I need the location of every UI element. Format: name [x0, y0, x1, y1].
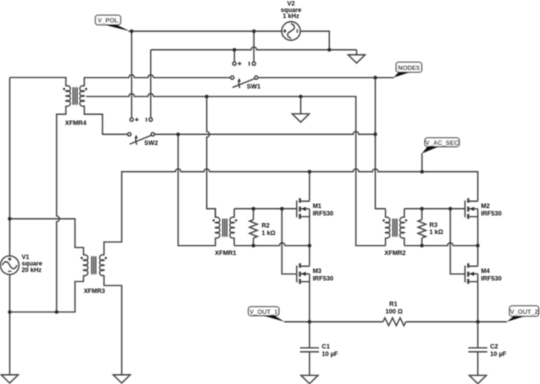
wire V1 rail lower x=9.7	[9, 275, 11, 375]
svg-text:IRF530: IRF530	[481, 276, 502, 283]
junction V1 rail to XFMR3	[8, 217, 12, 221]
wire C2 top stub	[477, 322, 479, 348]
svg-text:C1: C1	[322, 344, 331, 351]
junction XFMR4 return	[55, 310, 59, 314]
wire bottom segB prime y=245.6 right	[404, 243, 478, 246]
junction R3 top	[420, 207, 424, 211]
net label V_OUT_1	[248, 307, 284, 322]
svg-text:R3: R3	[429, 222, 438, 229]
R2 labels	[262, 223, 276, 237]
wire XFMR3 right top lead up and drain line y=171.7	[104, 169, 478, 255]
wire gate line right y=208.7	[404, 208, 465, 210]
junction V1 bottom rail	[8, 310, 12, 314]
switch SW1	[231, 76, 258, 88]
junction R2 top	[252, 207, 256, 211]
svg-text:IRF530: IRF530	[481, 211, 502, 218]
wire XFMR3 right bottom to ground G4	[104, 275, 122, 375]
wire XFMR1 left top lead	[214, 209, 216, 218]
junction SW2 line to rail 178	[176, 133, 180, 137]
wire rail x=206.7 down to XFMR1 left top	[207, 97, 216, 218]
open terminal pair lower (+ |)	[130, 118, 152, 122]
junction tap to XFMR1 feed	[205, 95, 209, 99]
C2 labels	[490, 344, 506, 358]
wire V1 rail upper x=9.7	[9, 78, 11, 256]
capacitor C2 10 uF	[468, 348, 487, 352]
wire V_OUT line left of R1	[284, 321, 383, 323]
wire XFMR4 right bottom lead to SW2	[84, 106, 127, 135]
svg-text:SW1: SW1	[247, 84, 261, 91]
ground G1 top	[348, 50, 365, 63]
wire XFMR2 right top lead	[403, 209, 405, 218]
resistor R3 1 kOhm	[418, 220, 426, 238]
wire M1 source to M3 drain column	[309, 209, 311, 266]
junction V_AC_SEC tap	[420, 170, 424, 174]
transformer XFMR4	[63, 86, 87, 107]
wire R2 top lead	[252, 209, 254, 220]
mosfet M3 IRF530	[297, 263, 310, 284]
junction V_OUT_2 node	[476, 320, 480, 324]
junction V_OUT_1 node	[308, 320, 312, 324]
net label NODE5	[394, 62, 422, 77]
net label V_AC_SEC	[422, 138, 459, 154]
wire SW2 output y=134.3 to rail A	[155, 132, 376, 135]
svg-text:XFMR1: XFMR1	[215, 250, 237, 257]
junction pair1 left stub	[233, 48, 237, 52]
wire V1 to XFMR3 left top y=218.8	[10, 219, 84, 255]
wire C1 top stub	[309, 322, 311, 348]
svg-text:V_AC_SEC: V_AC_SEC	[425, 140, 459, 147]
transformer XFMR2	[383, 217, 408, 238]
wire XFMR1 right top lead	[233, 209, 235, 218]
junction V2 left column	[252, 29, 256, 33]
wire R2 bottom lead	[252, 238, 254, 246]
svg-text:XFMR2: XFMR2	[384, 250, 406, 257]
wire L2 corner rail x=150.7	[150, 50, 152, 118]
voltage source V2 square 1 kHz	[282, 22, 301, 41]
ground G4 under XFMR3	[113, 375, 130, 383]
svg-text:XFMR4: XFMR4	[65, 120, 87, 127]
junction M4 gate feed top	[449, 207, 453, 211]
voltage source V1 square 20 kHz	[0, 256, 19, 275]
ground G5 under C1	[301, 375, 318, 383]
svg-text:IRF530: IRF530	[313, 211, 334, 218]
svg-text:NODE5: NODE5	[398, 65, 420, 72]
R3 labels	[429, 222, 443, 236]
mosfet M4 IRF530	[465, 263, 478, 284]
wire V2 right lead	[300, 31, 329, 50]
junction R3 bottom	[420, 244, 424, 248]
wire M4 source down to V_OUT_2	[477, 274, 479, 322]
wire L1 XFMR4 right top to SW1	[84, 75, 230, 86]
switch SW2	[128, 133, 155, 145]
junction M1 drain on sec line	[308, 170, 312, 174]
M1 labels	[313, 203, 334, 218]
svg-text:V_POL: V_POL	[98, 17, 119, 24]
wire stub pair1 left x=234.4	[233, 50, 235, 62]
transformer XFMR3	[81, 255, 107, 276]
wire V_AC_SEC stub	[421, 153, 423, 171]
net label V_OUT_2	[507, 306, 539, 322]
svg-text:IRF530: IRF530	[313, 276, 334, 283]
M3 labels	[313, 268, 334, 283]
junction M3 gate feed top	[280, 207, 284, 211]
wire bottom segB y=245.6 left	[234, 243, 309, 246]
svg-text:1 kΩ: 1 kΩ	[429, 229, 443, 236]
V1 labels	[22, 254, 43, 274]
mosfet M1 IRF530	[297, 198, 310, 219]
transformer XFMR1	[212, 217, 237, 238]
junction R2 bottom	[252, 244, 256, 248]
wire V_OUT line right of R1	[406, 321, 507, 323]
svg-text:R2: R2	[262, 223, 271, 230]
svg-text:1 kΩ: 1 kΩ	[262, 230, 276, 237]
V2 labels	[281, 0, 302, 20]
net label V_POL	[95, 15, 129, 31]
wire XFMR2 left top lead	[385, 209, 387, 218]
svg-text:10 µF: 10 µF	[490, 351, 506, 358]
junction NODE5 rail top	[374, 76, 378, 80]
svg-text:R1: R1	[389, 301, 398, 308]
wire M1 drain	[309, 172, 311, 202]
svg-text:V_OUT_1: V_OUT_1	[250, 309, 278, 316]
capacitor C1 10 uF	[300, 348, 319, 352]
junction SW2 line to rail A	[374, 133, 378, 137]
resistor R2 1 kOhm	[249, 220, 257, 238]
junction V_POL rail	[130, 29, 134, 33]
svg-text:M1: M1	[313, 203, 322, 210]
wire C2 bottom stub	[477, 352, 479, 376]
wire rail x=178.1 down to XFMR1 left bottom	[178, 134, 215, 245]
svg-text:C2: C2	[490, 344, 499, 351]
svg-text:V_OUT_2: V_OUT_2	[510, 309, 538, 316]
svg-text:M4: M4	[481, 268, 490, 275]
wire V_POL horizontal net y=31	[129, 30, 282, 32]
wire M2 source to M4 drain column	[477, 209, 479, 266]
wire XFMR2 left bottom lead	[385, 238, 387, 246]
wire R3 top lead	[421, 209, 423, 220]
junction V2 right lead	[328, 48, 332, 52]
M4 labels	[481, 268, 502, 283]
junction tap to ground G2	[299, 95, 303, 99]
wire V_POL rail down x=131.6	[131, 31, 133, 118]
wire NODE5 rail A x=375.3 down to XFMR2 left top	[375, 78, 385, 209]
wire L2 y=50 from corner to ground	[151, 47, 357, 50]
svg-text:XFMR3: XFMR3	[84, 288, 106, 295]
ground G2 middle	[292, 114, 309, 122]
wire C1 bottom stub	[309, 352, 311, 376]
wire SW1 right to NODE5	[258, 77, 394, 79]
svg-text:1 kHz: 1 kHz	[283, 13, 299, 20]
wire gate line left y=208.7	[234, 208, 297, 210]
open terminal pair upper (+ |)	[233, 62, 256, 66]
wire XFMR4 center tap line y=96.5 to rail B and XFMR2 left bottom	[86, 94, 385, 246]
svg-text:20 kHz: 20 kHz	[22, 267, 42, 274]
svg-text:10 µF: 10 µF	[322, 351, 338, 358]
wire M3 gate feed x=282	[282, 209, 297, 274]
wire XFMR1 right bottom lead	[233, 238, 235, 246]
wire M3 source down to V_OUT_1	[309, 274, 311, 322]
wire XFMR4 left top lead to left rail	[10, 78, 66, 87]
wire R3 bottom lead	[421, 238, 423, 246]
M2 labels	[481, 203, 502, 218]
mosfet M2 IRF530	[465, 198, 478, 219]
wire XFMR2 right bottom lead	[403, 238, 405, 246]
svg-text:100 Ω: 100 Ω	[385, 308, 402, 315]
ground G6 under C2	[469, 375, 486, 383]
ground G3 under V1	[1, 375, 18, 383]
svg-text:M3: M3	[313, 268, 322, 275]
wire bottom y=312 to XFMR3 left bottom	[10, 275, 84, 312]
wire stub pair1 right x=253.9	[253, 31, 255, 62]
resistor R1 100 Ohm	[383, 318, 406, 326]
svg-text:M2: M2	[481, 203, 490, 210]
junction M1 source M3 drain	[308, 244, 312, 248]
svg-text:SW2: SW2	[144, 140, 158, 147]
wire ground stub G2	[300, 97, 302, 114]
wire XFMR4 left bottom rail x=56.6	[57, 106, 66, 312]
wire M4 gate feed x=450.3	[450, 209, 465, 274]
C1 labels	[322, 344, 338, 358]
R1 labels	[385, 301, 402, 315]
junction M2 source M4 drain	[476, 244, 480, 248]
